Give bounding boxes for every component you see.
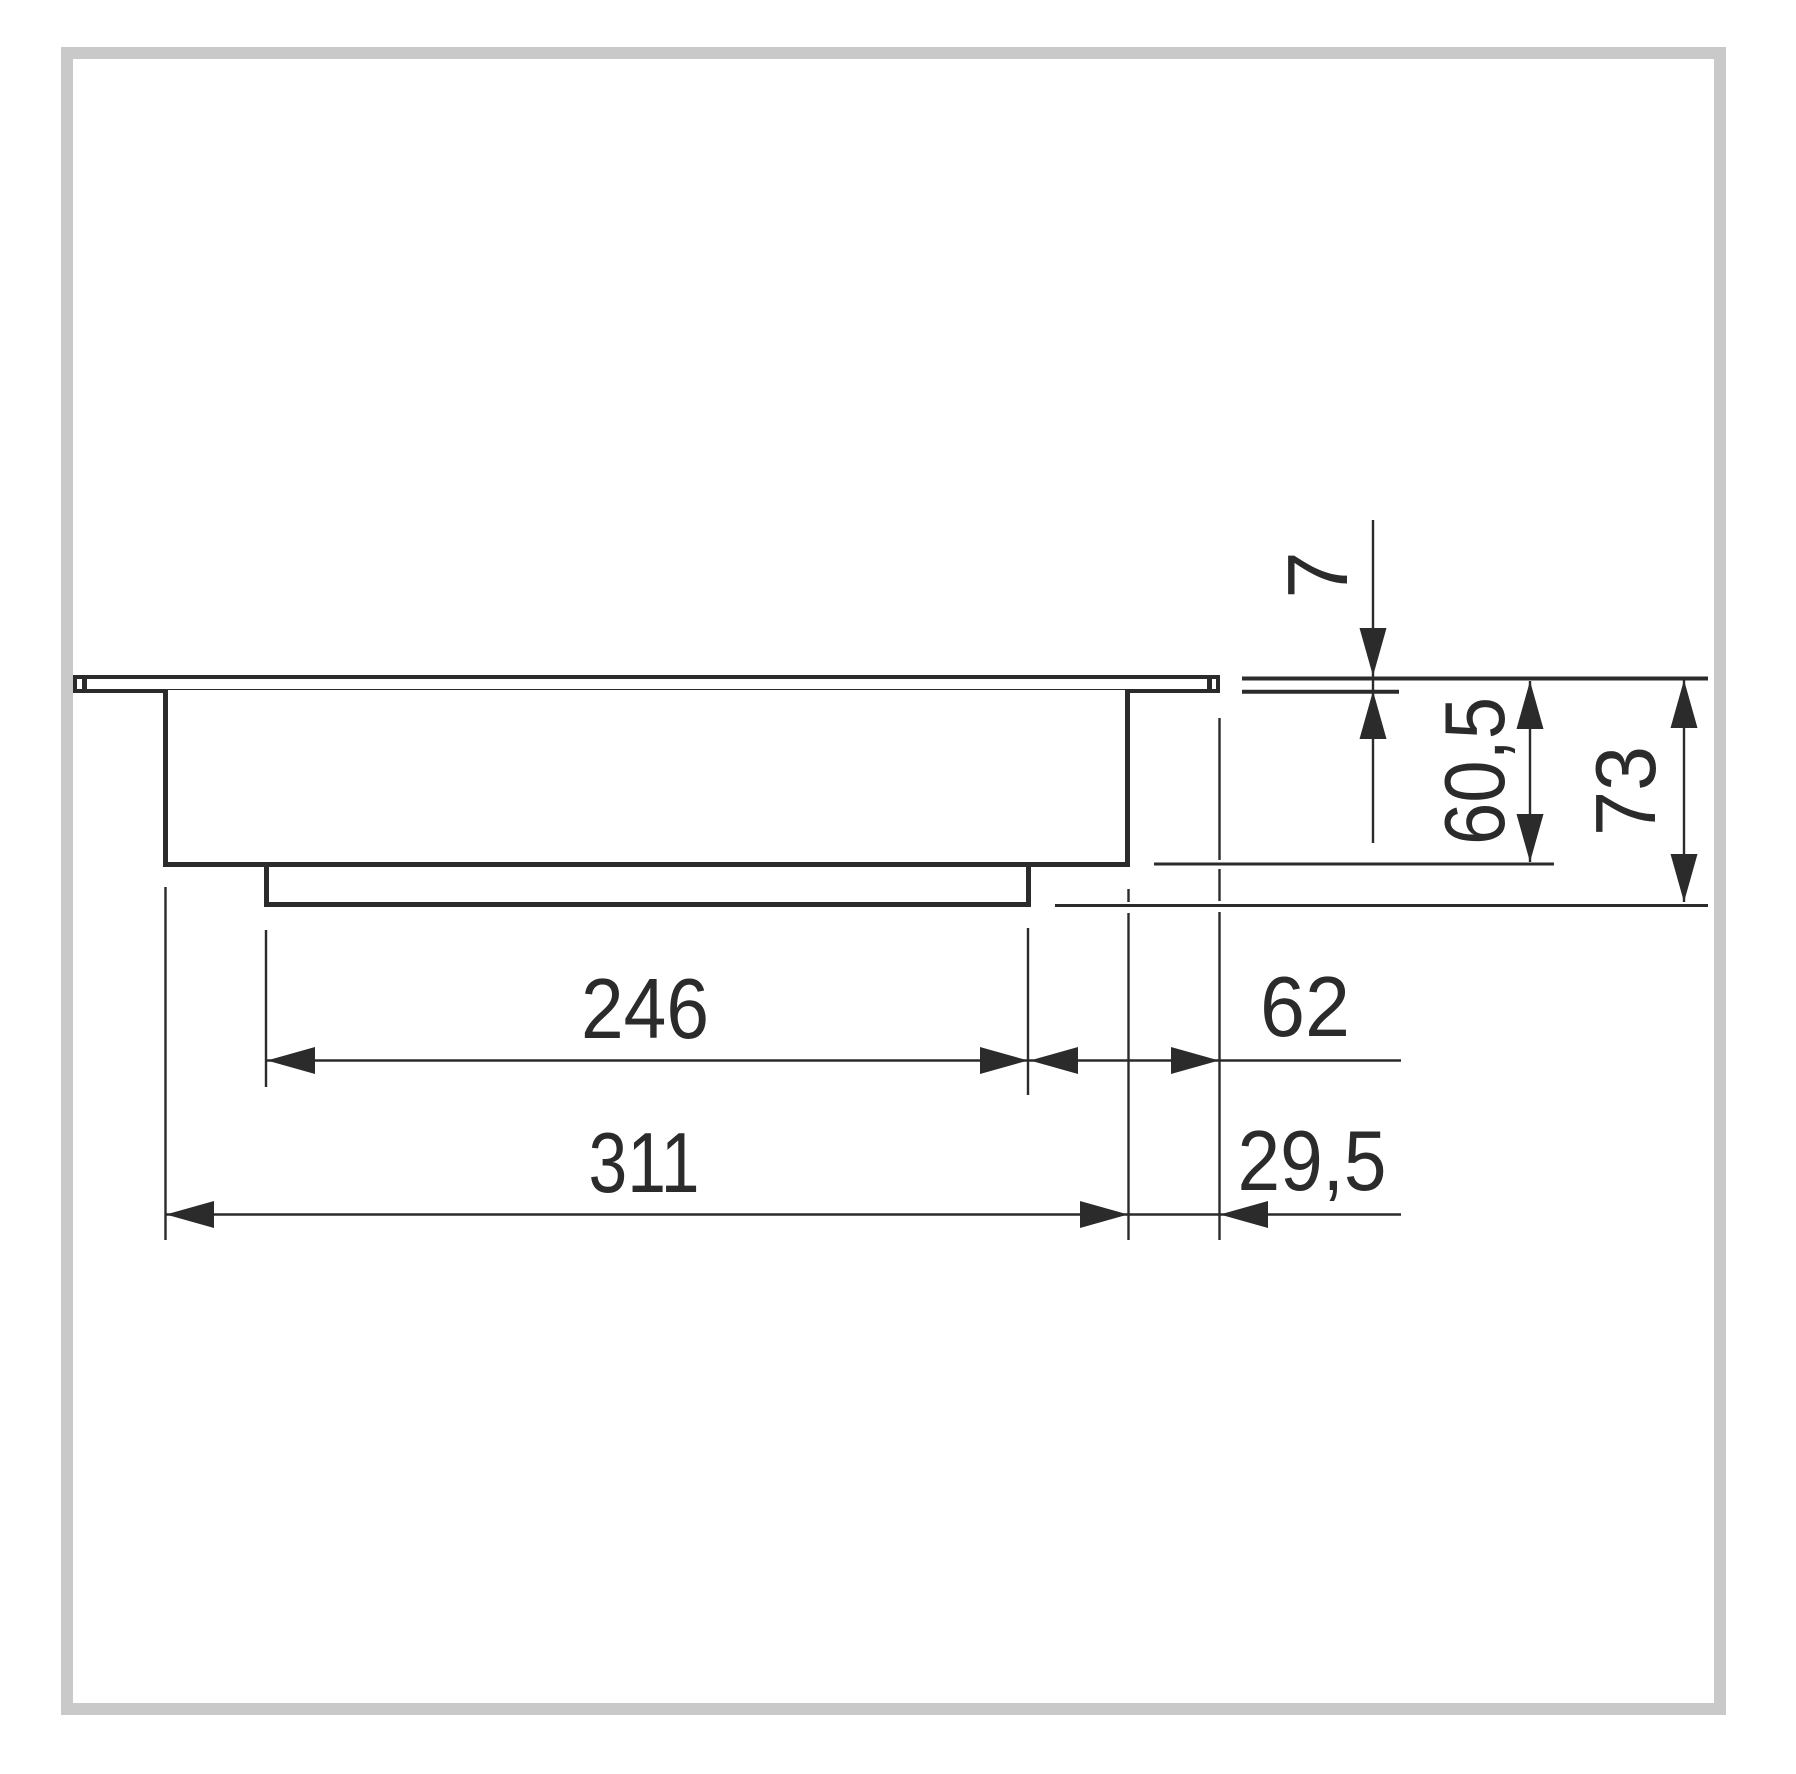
- extension line: lower housing left edge (down): [265, 930, 267, 1087]
- dimension line: 7 (vertical): [1372, 520, 1374, 843]
- svg-text:311: 311: [589, 1116, 700, 1211]
- dimension line: 60,5 (vertical): [1529, 681, 1531, 862]
- svg-text:246: 246: [581, 962, 709, 1057]
- dimension line: 311 / 29,5: [166, 1213, 1401, 1215]
- arrowhead 311 right: [1080, 1201, 1128, 1228]
- svg-text:73: 73: [1579, 746, 1674, 836]
- arrowhead 62 left: [1030, 1047, 1078, 1074]
- svg-text:29,5: 29,5: [1238, 1114, 1387, 1209]
- arrowhead 7 lower: [1360, 691, 1387, 739]
- svg-text:60,5: 60,5: [1428, 697, 1523, 845]
- lower housing box: [264, 867, 1031, 907]
- arrowhead 62 right: [1171, 1047, 1219, 1074]
- arrowhead 29,5 right: [1220, 1201, 1268, 1228]
- hob body box: [163, 690, 1130, 867]
- arrowhead 73 top: [1671, 680, 1698, 728]
- arrowhead 311 left: [166, 1201, 214, 1228]
- extension line: body right edge (down): [1127, 889, 1129, 902]
- extension line: glass right edge (down): [1218, 718, 1220, 860]
- dimension line: 246 / 62: [267, 1059, 1401, 1061]
- glass panel (top plate cross-section): [73, 675, 1220, 693]
- arrowhead 60,5 bottom: [1517, 814, 1544, 862]
- extension line: lower housing bottom (right): [1055, 904, 1708, 907]
- arrowhead 7 upper: [1360, 628, 1387, 676]
- extension line: body bottom (right): [1154, 863, 1554, 866]
- svg-text:7: 7: [1271, 551, 1366, 598]
- extension line: glass bottom (right): [1242, 690, 1399, 694]
- dimension line: 73 (vertical): [1683, 680, 1685, 902]
- arrowhead 246 left: [267, 1047, 315, 1074]
- arrowhead 60,5 top: [1517, 681, 1544, 729]
- extension line: glass top (right): [1242, 677, 1708, 681]
- arrowhead 246 right: [980, 1047, 1028, 1074]
- extension line: body left edge (down): [164, 887, 166, 1240]
- svg-text:62: 62: [1260, 960, 1350, 1055]
- extension line: lower housing right edge (down): [1027, 928, 1029, 1095]
- arrowhead 73 bottom: [1671, 854, 1698, 902]
